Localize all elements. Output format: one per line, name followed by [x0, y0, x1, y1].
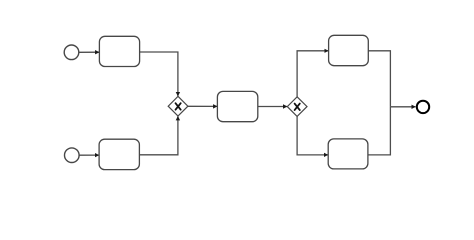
wire gateway G1 to task T3	[188, 105, 217, 107]
wire task T4 to merge junction	[368, 51, 390, 107]
wire task T5 to merge junction	[368, 107, 391, 155]
task T2	[99, 139, 139, 169]
end event	[417, 101, 429, 113]
XOR gateway G2	[287, 97, 307, 117]
wire task T2 to gateway G1 (up)	[140, 116, 178, 155]
task T4	[329, 35, 369, 65]
wire gateway G2 to task T4 (up branch)	[297, 51, 328, 97]
wire task T1 to gateway G1 (down)	[140, 52, 178, 96]
wire merge junction to end event	[390, 106, 415, 108]
wire start2 to task T2	[79, 154, 99, 156]
task T3	[217, 91, 257, 121]
XOR gateway G1	[168, 96, 188, 116]
wire start1 to task T1	[79, 51, 99, 53]
wire gateway G2 to task T5 (down branch)	[297, 116, 328, 155]
start event 1	[64, 45, 79, 60]
start event 2	[65, 148, 80, 163]
wire task T3 to gateway G2	[258, 106, 287, 108]
task T5	[328, 139, 368, 169]
task T1	[99, 36, 139, 66]
